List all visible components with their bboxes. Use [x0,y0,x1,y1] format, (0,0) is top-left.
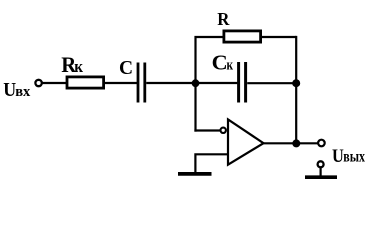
wire output [264,142,319,144]
ground terminal [318,161,324,167]
op-amp U1 [228,119,264,164]
svg-text:C: C [119,58,133,79]
capacitor Cк [239,62,246,103]
wire Rк to C [105,82,138,84]
inverting bubble [221,128,226,133]
wire R to right vertical [262,36,296,38]
node A junction [192,79,200,87]
resistor Rк [67,77,104,88]
ground left [178,172,212,176]
wire feedback left vertical and top [196,37,223,132]
input terminal [35,80,41,86]
node C junction [292,139,300,147]
label Uвых [332,145,365,166]
label Cк [212,51,234,74]
output terminal [318,140,325,147]
capacitor C [138,63,145,103]
svg-text:вх: вх [15,84,31,100]
resistor R [224,31,261,42]
ground right [305,175,337,179]
wire to inverting input [194,129,220,131]
svg-text:R: R [217,8,230,29]
label Uвх [3,79,31,101]
label Rк [61,52,84,77]
wire C to Cк [146,82,237,84]
svg-text:C: C [212,51,228,74]
svg-text:к: к [227,58,234,73]
svg-text:вых: вых [343,148,365,165]
wire ground stub [320,167,322,175]
svg-text:к: к [74,59,84,77]
wire non-inverting input [195,154,228,172]
node B junction [292,79,300,87]
svg-text:U: U [332,145,344,166]
wire input to Rк [42,82,66,84]
wire Cк to node B [247,82,296,84]
wire right vertical [295,36,297,143]
